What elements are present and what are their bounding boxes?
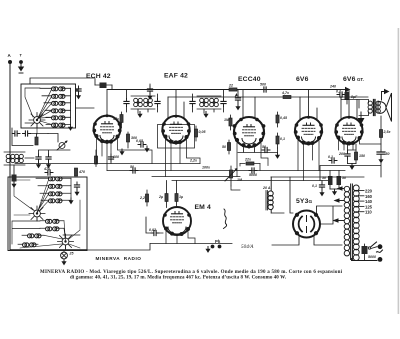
coupling capacitor C12: [336, 90, 345, 98]
volume potentiometer P1: [225, 166, 243, 186]
svg-text:100x: 100x: [202, 166, 211, 170]
svg-text:110: 110: [365, 210, 372, 215]
coil L12: [40, 227, 64, 231]
resistor R11: [276, 133, 285, 148]
svg-text:0,45: 0,45: [280, 116, 288, 120]
screen cap C6: [95, 83, 112, 89]
wire rectifier top: [272, 177, 293, 213]
tap arrow 3: [333, 218, 345, 222]
svg-text:200: 200: [338, 152, 345, 156]
svg-text:470: 470: [78, 170, 85, 174]
svg-text:160: 160: [365, 194, 373, 199]
mains plug terminal 1: [378, 244, 383, 249]
coil L4: [45, 109, 71, 113]
capacitor C27: [43, 167, 53, 175]
wire rectifier right: [317, 206, 343, 224]
svg-text:0,05: 0,05: [199, 130, 207, 134]
svg-text:50: 50: [130, 165, 134, 169]
wire bottom bus6: [10, 244, 150, 251]
svg-text:MINERVA RADIO: MINERVA RADIO: [96, 256, 142, 261]
wire box2 extra: [12, 221, 80, 244]
tap arrow 1: [337, 186, 345, 190]
svg-text:2,5x: 2,5x: [383, 130, 392, 134]
ground G6: [275, 153, 280, 159]
wire bus3: [152, 176, 240, 178]
ground under T2: [137, 112, 142, 118]
svg-text:50: 50: [222, 145, 226, 149]
capacitor C21: [130, 165, 138, 173]
wire tube drop 6V6GT: [339, 140, 382, 151]
tube U2 EAF42: [161, 115, 191, 145]
svg-text:2,2: 2,2: [139, 196, 145, 200]
IF transformer T2: [131, 96, 155, 113]
antenna terminal A: [8, 53, 13, 64]
smoothing capacitor C14: [345, 90, 359, 105]
wire tube drop ECH42: [97, 138, 153, 171]
plate resistor R13: [379, 116, 391, 150]
power switch S4: [368, 242, 377, 249]
coil L13: [22, 234, 44, 238]
svg-text:47x: 47x: [112, 117, 120, 121]
padding capacitor C5: [46, 154, 51, 168]
coil L9: [40, 192, 71, 196]
svg-text:6V6: 6V6: [343, 76, 356, 83]
wave band switch S1: [29, 113, 45, 128]
svg-text:4,7x: 4,7x: [281, 91, 290, 95]
wire output stage: [320, 160, 381, 181]
ground G9: [205, 247, 210, 253]
B+ bus wire: [107, 89, 337, 91]
wire 6V6 top: [300, 90, 317, 121]
svg-text:150: 150: [359, 154, 365, 158]
earth terminal T: [18, 53, 24, 74]
mains tap 110: [359, 210, 373, 215]
tube U1 ECH42: [92, 114, 121, 144]
wire oscillator section: [14, 150, 70, 177]
wire HT feed: [271, 176, 364, 178]
coil L10: [41, 199, 71, 203]
bypass capacitor C17: [338, 144, 350, 164]
resistor R15: [158, 181, 168, 208]
wire tube drop ECC40: [237, 142, 268, 177]
coil L14: [18, 243, 38, 247]
wire tube drop 6V6: [298, 140, 319, 181]
ground G7: [348, 164, 357, 170]
resistor R16: [175, 181, 183, 208]
tube U6 EM4 (magic eye): [163, 207, 191, 236]
wire 6V6GT top: [341, 90, 357, 121]
svg-text:20 A: 20 A: [262, 186, 271, 190]
wire tube drop EAF42: [166, 139, 201, 177]
svg-text:Ph: Ph: [215, 239, 221, 244]
power transformer T4: [344, 184, 359, 261]
capacitor C20: [108, 154, 119, 162]
wire EM4 bottom: [166, 230, 195, 244]
svg-text:ECH 42: ECH 42: [86, 73, 111, 80]
pickup cable squiggle: [224, 209, 227, 229]
ground G5: [119, 149, 124, 155]
svg-text:EM 4: EM 4: [195, 204, 212, 211]
resistor R8: [224, 115, 232, 130]
svg-text:GT.: GT.: [357, 77, 364, 82]
capacitor C28: [11, 175, 16, 188]
capacitor C16: [262, 145, 270, 153]
speaker LS1: [378, 93, 392, 122]
phono terminal Ph: [211, 239, 222, 248]
resistor R5: [112, 112, 123, 128]
capacitor C15: [136, 139, 150, 152]
capacitor C22: [249, 168, 257, 177]
capacitor C7: [124, 90, 129, 113]
padding capacitor C4: [36, 154, 41, 168]
resistor R10: [276, 112, 288, 127]
wire mains bottom: [352, 259, 378, 261]
resistor R3: [228, 84, 237, 92]
mains cord squiggle: [377, 250, 383, 252]
coil L7: [36, 177, 71, 181]
oscillator coil T1: [4, 152, 25, 165]
shield box around EAF42: [158, 125, 195, 149]
resistor R7: [194, 126, 206, 141]
wire bottom bus5: [150, 243, 232, 245]
wire box1 to ECH42 grid: [30, 78, 95, 108]
capacitor C8: [155, 94, 160, 112]
padder capacitor C3: [12, 128, 48, 146]
coil L2: [42, 94, 71, 98]
svg-text:470: 470: [43, 167, 50, 171]
grid capacitor C11: [235, 90, 241, 111]
svg-text:ECC40: ECC40: [238, 76, 261, 83]
resistor R6: [126, 132, 137, 148]
svg-text:0,1: 0,1: [280, 137, 285, 141]
resistor R2: [94, 150, 97, 167]
svg-text:0,1: 0,1: [312, 184, 317, 188]
svg-text:5Y3G: 5Y3G: [296, 198, 313, 205]
svg-text:0,1: 0,1: [328, 155, 333, 159]
mains tap 125: [359, 204, 373, 209]
coil L11: [40, 219, 64, 223]
output transformer T5: [368, 100, 380, 116]
mains tap 160: [359, 194, 373, 199]
wire ECH42 top: [95, 79, 112, 116]
screen bus wire: [168, 96, 368, 98]
wire switch fan S2: [14, 178, 49, 221]
mains capacitor C29: [362, 244, 377, 261]
resistor R9: [222, 140, 231, 154]
resistor R4: [281, 91, 291, 99]
coil L5: [46, 116, 71, 120]
tube U3 ECC40: [233, 117, 266, 148]
oscillator trimmer arrow: [48, 134, 68, 151]
mains tap 220: [359, 189, 373, 194]
filter choke CH1: [266, 177, 273, 213]
svg-text:50: 50: [262, 145, 266, 149]
B+ arrow: [329, 85, 351, 93]
AVC bus wire: [15, 163, 200, 165]
capacitor C25: [146, 217, 163, 236]
svg-text:0,02: 0,02: [149, 228, 156, 232]
electrolytic C23: [322, 171, 333, 190]
tap arrow 2: [334, 198, 345, 202]
svg-text:1µ: 1µ: [179, 195, 183, 199]
tube U7 5Y3G rectifier: [293, 211, 320, 238]
wire output primary: [341, 97, 369, 116]
svg-text:500: 500: [260, 83, 266, 87]
mains plug terminal 2: [378, 257, 383, 262]
IF transformer T3: [197, 96, 221, 113]
wire antenna lead-in: [9, 64, 11, 250]
svg-text:140: 140: [365, 199, 373, 204]
mains tap 140: [359, 199, 373, 204]
coil L8: [38, 184, 71, 188]
resistor R17: [139, 190, 149, 206]
svg-text:22x: 22x: [244, 158, 252, 162]
svg-text:2,2x: 2,2x: [189, 159, 198, 163]
coil L1: [40, 87, 71, 91]
svg-text:MINERVA RADIO - Mod. Viareggio: MINERVA RADIO - Mod. Viareggio tipo 526/…: [40, 270, 343, 275]
wave band switch S2: [29, 206, 45, 221]
AVC capacitor C2: [147, 84, 152, 100]
resistor R1: [35, 134, 38, 146]
svg-text:100: 100: [113, 155, 119, 159]
svg-text:5000: 5000: [368, 255, 376, 259]
capacitor C10: [221, 90, 226, 113]
page edge shadow: [398, 28, 400, 314]
svg-text:50: 50: [386, 152, 390, 156]
wire EAF42 top: [168, 90, 184, 119]
svg-text:EAF 42: EAF 42: [164, 73, 188, 80]
electrolytic C24: [337, 171, 347, 190]
svg-text:240: 240: [329, 85, 336, 89]
svg-text:0,05: 0,05: [136, 139, 144, 143]
wave band switch S3: [58, 234, 74, 249]
wire rectifier bottom: [272, 236, 342, 245]
resistor R18: [74, 168, 85, 176]
capacitor C13: [260, 83, 269, 93]
svg-text:22: 22: [228, 84, 233, 88]
wire switch fan S1: [25, 88, 52, 134]
filter capacitor C19: [377, 150, 390, 163]
capacitor C18: [328, 155, 337, 163]
hum capacitor C30: [312, 181, 325, 197]
cathode resistor R12: [354, 144, 365, 164]
ground G10: [68, 178, 73, 204]
coil box 1 (RF coil assembly): [21, 84, 76, 128]
svg-text:0,1: 0,1: [336, 90, 341, 94]
wire bus2: [107, 170, 345, 172]
svg-text:8µF: 8µF: [351, 95, 358, 99]
ground under T3: [203, 112, 208, 118]
trimmer capacitor C1: [76, 86, 81, 99]
ground under coil bank: [68, 125, 73, 131]
wire ECC40 cathode net: [238, 148, 278, 153]
wire coil commons: [70, 88, 72, 124]
dial lamp LP1: [61, 251, 75, 266]
svg-text:504/A: 504/A: [241, 243, 254, 250]
capacitor C9: [190, 94, 195, 112]
svg-text:125: 125: [365, 204, 373, 209]
coil L6: [46, 123, 71, 127]
svg-text:di gamma: 40, 41, 31, 25, 19,: di gamma: 40, 41, 31, 25, 19, 17 m. Medi…: [70, 276, 287, 281]
svg-text:6V6: 6V6: [296, 76, 309, 83]
tube U4 6V6: [294, 116, 323, 146]
tube U5 6V6GT: [334, 116, 363, 146]
capacitor C26: [74, 182, 79, 196]
coil box 2 (oscillator coil assembly): [8, 177, 87, 251]
resistor R14: [240, 158, 260, 166]
wire switch fan S3: [20, 200, 80, 251]
speaker field arrow: [382, 89, 390, 100]
svg-text:220: 220: [365, 189, 373, 194]
svg-text:2µ: 2µ: [158, 195, 163, 199]
wire ECC40 top: [243, 90, 255, 119]
svg-text:5000: 5000: [249, 173, 257, 177]
wire bus4: [172, 180, 332, 182]
wire detector net: [231, 164, 260, 191]
coil L3: [44, 101, 71, 105]
ground G11: [358, 112, 365, 125]
ground G8: [330, 189, 339, 195]
